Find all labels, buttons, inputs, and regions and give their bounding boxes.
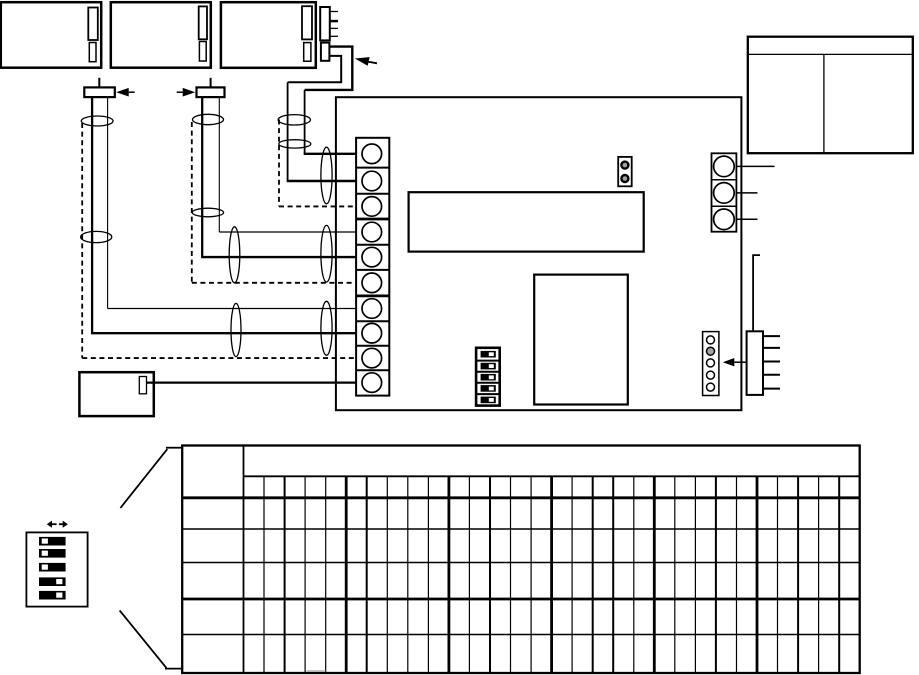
table row line 3 [182, 562, 860, 564]
card reader 2 (top-middle box) [111, 2, 211, 68]
reader 2 connector slot (tall) [199, 6, 207, 39]
TB2 terminal 1 [714, 156, 735, 177]
TB1 terminal 2 [362, 171, 382, 191]
P3 pin 2 [330, 20, 338, 23]
wire: device to terminal 10 [147, 381, 364, 383]
zoom leader line (bottom) [120, 610, 167, 668]
P3 pin 3 [330, 27, 338, 29]
wire stub to connector J2 [753, 255, 760, 331]
reader 2 connector slot (short) [199, 42, 206, 62]
TB1 terminal 7 [362, 299, 382, 319]
DIP zoom switch 3 (on-left) [39, 563, 66, 572]
relay K1 (long rectangle) [409, 192, 644, 251]
cable loop over wires 1-3 (near board) [321, 147, 332, 204]
terminal block TB1 (10-way) [356, 138, 389, 396]
wire: P2 thin conductor to terminal 4 [218, 98, 220, 233]
X1 pin 2 [763, 347, 780, 349]
P3 pin 1 [330, 11, 338, 13]
X1 pin 1 [763, 335, 780, 337]
DIP switch S1 block [476, 348, 500, 406]
DIP zoom switch 1 (on-left) [39, 537, 66, 546]
S1 switch 3 [481, 374, 496, 381]
J2 hole 1 [707, 336, 715, 344]
cable loop over wires 7-9 (mid route) [231, 303, 241, 356]
J2 hole 5 [707, 383, 715, 391]
TB1 terminal 3 [362, 197, 382, 217]
reader 3 plug P3 upper (4-pin) [320, 7, 330, 40]
device output port [139, 377, 146, 394]
arrow pointing at plug P1 [116, 88, 129, 97]
TB1 terminal 5 [362, 247, 382, 267]
J1 pin 2 [621, 175, 628, 182]
reader 3 connector slot (tall) [302, 6, 312, 39]
TB1 terminal 10 [362, 373, 382, 393]
J1 pin 1 [621, 162, 628, 169]
P3 pin 4 [330, 35, 338, 37]
wire: cable 1 shield (dashed) to terminal 9 [81, 123, 83, 358]
IC U1 (large rectangle) [534, 275, 628, 405]
S1 switch 4 [481, 385, 496, 392]
table row line 1 (thick) [182, 496, 860, 499]
zoom leader line (top) [120, 449, 167, 508]
wire: P1 thick conductor to terminal 8 [91, 98, 93, 334]
S1 switch 1 [481, 351, 496, 358]
TB1 terminal 4 [362, 222, 382, 242]
wire: P2 thick conductor to terminal 5 [201, 98, 203, 258]
DIP switch zoom box [26, 532, 87, 606]
programming header J2 (5-hole) [703, 332, 719, 396]
DIP zoom switch 4 (on-right) [39, 577, 66, 586]
table column grid lines [263, 476, 265, 673]
legend box (top right) [748, 37, 913, 154]
slide direction arrows [47, 521, 52, 528]
jumper J1 header [618, 157, 632, 186]
wire from TB2 terminal 1 [736, 165, 774, 167]
wire: P4 thick conductor to terminal 1 [305, 47, 353, 90]
wire from TB2 terminal 3 [736, 218, 757, 220]
table row line 2 [182, 528, 860, 530]
cable 3 ferrite loop A [278, 115, 310, 125]
control board outline [336, 97, 742, 410]
wire: cable 2 shield (dashed) to terminal 6 [191, 122, 193, 283]
arrow pointing at header J2 [723, 358, 735, 366]
cable loop over wires 4-6 (mid route) [229, 227, 240, 283]
plug P1 pin tick [98, 78, 100, 87]
cable 2 ferrite loop A [193, 114, 224, 124]
DIP zoom switch 2 (on-left) [39, 549, 66, 558]
table row line 4 (thick) [182, 598, 860, 601]
X1 pin 3 [763, 361, 780, 363]
J2 hole 2 [707, 347, 715, 355]
cable 1 ferrite loop A [81, 116, 113, 126]
cable loop over wires 7-9 (near board) [321, 301, 332, 355]
table row line 5 [182, 634, 860, 636]
wire: P4 return conductor to terminal 2 [288, 56, 342, 82]
DIP zoom switch 5 (on-right) [39, 591, 66, 600]
TB1 terminal 9 [362, 348, 382, 368]
reader 3 plug P4 lower (2-pin) [321, 43, 330, 61]
arrow callout at reader 3 cable [355, 57, 370, 66]
TB2 terminal 3 [714, 209, 735, 230]
cable 1 ferrite loop B [81, 231, 112, 242]
TB1 terminal 1 [362, 144, 382, 164]
card reader 1 (top-left box) [1, 2, 101, 68]
arrow pointing at plug P2 [183, 88, 196, 97]
J2 hole 3 [707, 359, 715, 367]
card reader 3 (top-right box) [221, 2, 316, 68]
wire from TB2 terminal 2 [736, 192, 757, 194]
X1 pin 5 [763, 388, 780, 390]
wire: P1 thin conductor to terminal 7 [107, 98, 109, 309]
terminal block TB2 (3-way) [712, 153, 737, 231]
table top band bottom line [244, 475, 860, 477]
plug P1 body [84, 87, 115, 97]
table header column divider [243, 446, 245, 674]
cable 3 ferrite loop B [279, 140, 311, 148]
reader 3 connector slot (short) [304, 43, 311, 62]
S1 switch 2 [481, 363, 496, 370]
plug P2 pin tick [210, 78, 212, 87]
S1 switch 5 [481, 397, 496, 404]
TB1 terminal 8 [362, 323, 382, 343]
cable loop over wires 4-6 (near board) [321, 225, 332, 282]
reader 1 connector slot (tall) [88, 8, 98, 41]
TB2 terminal 2 [714, 183, 735, 204]
X1 pin 4 [763, 374, 780, 376]
faint artifact line in bottom cell [307, 670, 326, 672]
auxiliary device box [79, 372, 153, 416]
TB1 terminal 6 [362, 273, 382, 293]
wire: cable 3 shield (dashed) to terminal 3 [278, 120, 280, 207]
reader 1 connector slot (short) [89, 43, 96, 62]
connector X1 (5-pin) [747, 331, 763, 395]
J2 hole 4 [707, 371, 715, 379]
plug P2 body [197, 87, 225, 97]
address table outer border [182, 446, 860, 674]
cable 2 ferrite loop B [192, 208, 223, 217]
